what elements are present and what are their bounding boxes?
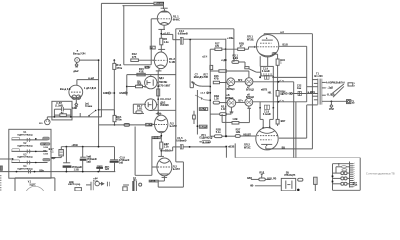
svg-text:Л7Б-ВЦ75: Л7Б-ВЦ75: [284, 175, 296, 177]
svg-text:ВБ: ВБ: [282, 146, 286, 149]
svg-text:0.68мкФ: 0.68мкФ: [176, 138, 187, 142]
svg-text:0.68мкФ: 0.68мкФ: [178, 31, 189, 35]
svg-text:ЕДИНСТВ(2Ц): ЕДИНСТВ(2Ц): [18, 168, 33, 170]
svg-text:GND: GND: [72, 108, 77, 110]
svg-text:6Н9С: 6Н9С: [173, 18, 180, 22]
svg-text:Главн: Главн: [85, 105, 93, 108]
svg-text:БП5Ц3: БП5Ц3: [225, 97, 234, 100]
svg-text:в-ВОЗ: в-ВОЗ: [308, 91, 316, 94]
svg-text:РЦБ: РЦБ: [353, 185, 358, 187]
svg-text:6П3С: 6П3С: [244, 145, 251, 149]
svg-text:БП5Ц3: БП5Ц3: [227, 88, 236, 91]
svg-text:Д-СВВ2: Д-СВВ2: [203, 142, 212, 144]
svg-text:47Б: 47Б: [214, 77, 219, 81]
svg-text:-..ЗдБ: -..ЗдБ: [327, 87, 334, 89]
svg-text:Б.9Г2: Б.9Г2: [170, 124, 178, 128]
svg-text:175: 175: [132, 55, 137, 59]
svg-text:ВБ7: ВБ7: [281, 120, 286, 123]
svg-text:1.2к: 1.2к: [164, 40, 170, 44]
svg-text:+ЗОБ: +ЗОБ: [150, 181, 156, 183]
svg-text:+300V: +300V: [155, 1, 164, 5]
svg-text:41Б: 41Б: [139, 69, 144, 73]
svg-text:0.1мкФ: 0.1мкФ: [262, 70, 270, 73]
svg-text:ВВч: ВВч: [39, 170, 44, 172]
svg-text:+ЗОБ: +ЗОБ: [152, 137, 158, 139]
svg-text:ЬВЯ: ЬВЯ: [247, 178, 252, 180]
svg-text:БП5Ц3: БП5Ц3: [246, 88, 255, 91]
svg-text:к-307: к-307: [145, 67, 151, 69]
svg-text:1кВ: 1кВ: [105, 169, 109, 171]
svg-text:кЗ.Ч: кЗ.Ч: [202, 57, 207, 59]
svg-text:R1Т: R1Т: [204, 75, 209, 77]
svg-text:СЗ--СЗ.2: СЗ--СЗ.2: [160, 97, 171, 101]
svg-text:Б.9Г2: Б.9Г2: [173, 167, 181, 171]
svg-text:470к: 470к: [116, 117, 122, 121]
svg-text:470: 470: [215, 45, 220, 48]
svg-text:С2БД2: С2БД2: [200, 127, 208, 129]
svg-text:ЛЗСВ8: ЛЗСВ8: [160, 103, 169, 107]
svg-text:и ДВ: и ДВ: [221, 59, 227, 62]
svg-text:1.8В: 1.8В: [232, 118, 237, 121]
svg-text:17Б-19БТ: 17Б-19БТ: [159, 83, 171, 87]
svg-text:+40Б: +40Б: [227, 36, 234, 40]
svg-text:Вход 0.8: Вход 0.8: [60, 87, 71, 91]
svg-text:ВЗ.В: ВЗ.В: [283, 45, 289, 47]
svg-text:С учетом удаленных ТВ: С учетом удаленных ТВ: [366, 173, 395, 176]
svg-text:5ЦЗС: 5ЦЗС: [29, 183, 36, 186]
svg-text:нВГВ: нВГВ: [261, 89, 268, 92]
svg-text:ВГч: ВГч: [238, 100, 243, 103]
svg-text:нВЗВ: нВЗВ: [228, 145, 235, 148]
svg-text:6Д4: 6Д4: [159, 76, 164, 80]
svg-text:1.2к: 1.2к: [214, 96, 220, 100]
svg-text:(1.2кВ): (1.2кВ): [55, 105, 63, 108]
svg-text:ЕДИНСТВ(2Ц): ЕДИНСТВ(2Ц): [18, 135, 33, 137]
svg-text:6.1В: 6.1В: [169, 60, 175, 64]
svg-text:+ЗБВ: +ЗБВ: [71, 144, 78, 147]
svg-text:В1 220: В1 220: [314, 74, 323, 78]
svg-text:ЛЗС8Н: ЛЗС8Н: [159, 80, 168, 84]
svg-text:А-НОРМ,ВЫКЛ-А: А-НОРМ,ВЫКЛ-А: [326, 82, 345, 85]
svg-text:ЕДИНСТВ(2Ц): ЕДИНСТВ(2Ц): [18, 145, 33, 147]
svg-text:4?: 4?: [240, 44, 243, 48]
svg-text:GND Ф: GND Ф: [282, 92, 290, 95]
svg-text:1.2к: 1.2к: [164, 144, 170, 148]
svg-text:12В: 12В: [236, 130, 241, 134]
svg-text:НВ.: НВ.: [268, 93, 272, 95]
svg-text:5.1В: 5.1В: [43, 154, 48, 156]
svg-text:1.В1: 1.В1: [137, 107, 143, 111]
svg-text:ФЕРРО(2Ц): ФЕРРО(2Ц): [68, 183, 80, 186]
svg-text:5дБ: 5дБ: [86, 161, 91, 164]
svg-text:НВ.ВП: НВ.ВП: [243, 133, 251, 136]
svg-text:С2БД: С2БД: [200, 109, 207, 111]
svg-text:4Ω: 4Ω: [352, 102, 355, 105]
svg-text:дБ2: дБ2: [73, 69, 79, 73]
svg-text:БП5Ц3: БП5Ц3: [246, 96, 255, 99]
svg-text:0.1мкФ: 0.1мкФ: [263, 113, 271, 116]
svg-text:ВЫ1ДЧ: ВЫ1ДЧ: [194, 75, 204, 79]
svg-text:В1Б..РБ: В1Б..РБ: [267, 178, 276, 180]
svg-text:1.ДЗ: 1.ДЗ: [233, 56, 239, 60]
svg-text:5.1к: 5.1к: [216, 130, 222, 134]
svg-text:GND: GND: [103, 92, 109, 95]
svg-text:Вход УЗЧ: Вход УЗЧ: [73, 52, 86, 56]
svg-text:Е2ДИН(2Ц): Е2ДИН(2Ц): [200, 136, 213, 139]
svg-text:1БД: 1БД: [137, 83, 142, 86]
svg-text:5.1В: 5.1В: [43, 147, 48, 149]
svg-text:1кВ: 1кВ: [119, 161, 124, 164]
svg-text:в-ж2: в-ж2: [88, 76, 94, 80]
svg-text:ЕДИНСТВ(2Ц): ЕДИНСТВ(2Ц): [18, 157, 33, 159]
svg-text:НВ-: НВ-: [250, 185, 254, 187]
svg-text:GND: GND: [119, 92, 125, 95]
svg-text:1 дБ ГД14: 1 дБ ГД14: [84, 86, 97, 90]
svg-text:6П3Б: 6П3Б: [247, 37, 254, 41]
svg-text:С2БД: С2БД: [146, 124, 152, 126]
svg-text:470к: 470к: [116, 66, 122, 70]
svg-text:Л0Б: Л0Б: [204, 77, 209, 79]
svg-text:ВГЗ: ВГЗ: [238, 80, 243, 82]
svg-text:УЛИ: УЛИ: [329, 108, 334, 111]
svg-text:м2-З: м2-З: [200, 93, 205, 95]
svg-text:а-б: а-б: [280, 31, 284, 34]
